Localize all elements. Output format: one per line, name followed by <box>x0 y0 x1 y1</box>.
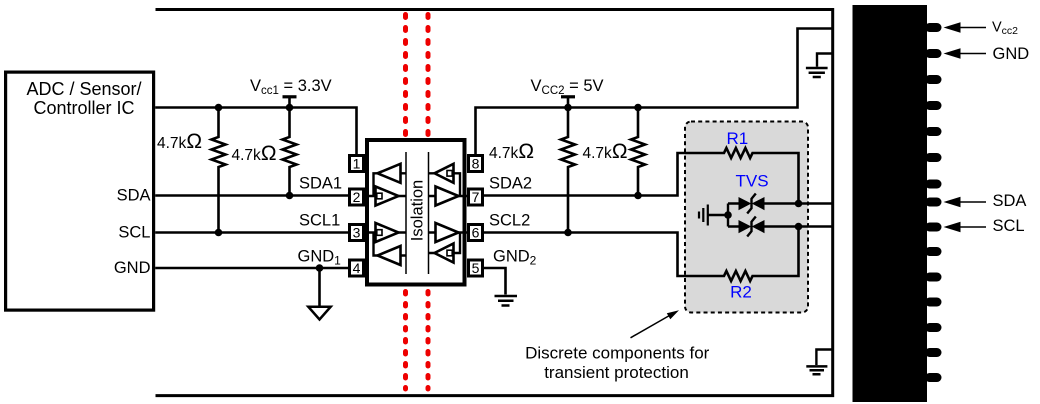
svg-text:Controller IC: Controller IC <box>33 98 134 118</box>
node dot SCL-RP1 <box>215 229 223 237</box>
marker on H <box>447 250 452 256</box>
pin box 6 <box>469 225 483 241</box>
inner barrier line left <box>405 152 407 274</box>
svg-text:SDA1: SDA1 <box>299 175 342 193</box>
Vcc2 supply symbol <box>561 95 575 98</box>
buffer E wires (ch2 left) <box>363 233 406 256</box>
node dot GND <box>316 264 324 272</box>
svg-text:GND: GND <box>114 259 151 277</box>
svg-text:4.7kΩ: 4.7kΩ <box>583 140 628 163</box>
svg-text:R2: R2 <box>730 283 752 302</box>
wire GND row <box>155 267 349 270</box>
svg-text:5: 5 <box>472 260 480 276</box>
ADC / Sensor / Controller IC box <box>6 72 154 310</box>
node dot rail-RP4 <box>634 104 642 112</box>
connector body <box>853 5 928 402</box>
wire SCL2 through R2 to connector <box>483 227 833 282</box>
isolation barrier (red dashed) bottom-right <box>426 292 431 390</box>
pin box 2 <box>350 189 364 205</box>
svg-text:4.7kΩ: 4.7kΩ <box>232 142 277 165</box>
arrow SDA <box>944 197 961 208</box>
Vcc1 supply symbol <box>283 95 297 98</box>
node dot rail-RP1 <box>215 104 223 112</box>
buffer H (points left) <box>435 244 454 263</box>
svg-text:SDA: SDA <box>117 187 151 205</box>
node dot SDA-RP2 <box>286 192 294 200</box>
svg-text:2: 2 <box>353 189 361 205</box>
svg-text:SDA2: SDA2 <box>489 175 532 193</box>
ground (rotated) for TVS <box>699 205 708 226</box>
svg-text:SCL1: SCL1 <box>299 212 340 230</box>
inner barrier line right <box>428 152 430 274</box>
buffer A wires (ch1 left) <box>363 173 406 196</box>
isolation barrier (red dashed) bottom-left <box>403 292 408 390</box>
protection box (gray dashed) <box>685 122 808 313</box>
buffer C (points left) <box>435 164 454 183</box>
resistor RP1 4.7k (left, to SCL) <box>212 108 226 233</box>
arrow SCL <box>944 222 961 233</box>
buffer A (points left) <box>378 164 401 183</box>
wire Vcc1 rail to pin 1 <box>155 108 356 156</box>
isolator IC body U1 <box>367 140 465 285</box>
svg-text:SCL2: SCL2 <box>489 212 530 230</box>
svg-text:1: 1 <box>353 156 361 172</box>
marker on E <box>377 230 382 236</box>
svg-text:Discrete components for: Discrete components for <box>525 344 710 363</box>
svg-text:SCL: SCL <box>993 217 1025 235</box>
arrow Vcc2 <box>944 22 961 33</box>
TVS bus vertical <box>727 204 729 227</box>
svg-text:transient protection: transient protection <box>544 363 689 382</box>
svg-text:SDA: SDA <box>993 192 1027 210</box>
wire SDA2 through R1 to connector <box>483 148 833 204</box>
buffer F (points left) <box>378 246 401 265</box>
buffer E (points right) <box>376 223 399 242</box>
node dot rail-RP2 <box>286 104 294 112</box>
resistor RP3 4.7k (right, to SCL2) <box>561 108 575 233</box>
pin box 8 <box>469 156 483 172</box>
pin box 5 <box>469 260 483 276</box>
buffer G wires (ch2 right) <box>429 233 469 254</box>
pin box 3 <box>350 225 364 241</box>
board frame wire (top/right/bottom) <box>156 10 833 396</box>
svg-text:TVS: TVS <box>735 172 768 191</box>
svg-text:GND2: GND2 <box>493 248 537 268</box>
pin box 4 <box>350 260 364 276</box>
node dot SDA2-RP4 <box>634 192 642 200</box>
node dot TVS-SDA <box>795 200 803 208</box>
svg-text:6: 6 <box>472 225 480 241</box>
node dot TVS-SCL <box>795 223 803 231</box>
node dot rail-RP3 <box>564 104 572 112</box>
buffer G (points right) <box>436 223 459 242</box>
svg-text:4.7kΩ: 4.7kΩ <box>157 130 202 153</box>
buffer B (points right) <box>376 187 399 206</box>
pin box 7 <box>469 189 483 205</box>
resistor RP4 4.7k (right, to SDA2) <box>631 108 645 196</box>
resistor RP2 4.7k (left, to SDA) <box>283 108 297 196</box>
svg-text:Vcc2: Vcc2 <box>992 20 1018 38</box>
ground (triangle) under GND1 <box>318 268 321 306</box>
isolation barrier (red dashed) top-left <box>403 15 408 136</box>
node dot TVS common <box>724 211 732 219</box>
buffer C wires (ch1 right) <box>429 173 469 196</box>
svg-text:GND: GND <box>993 45 1030 63</box>
svg-text:4: 4 <box>353 260 361 276</box>
arrow GND <box>944 48 961 59</box>
wire SDA row <box>155 194 349 197</box>
ground (bars) top right <box>817 54 833 67</box>
wire GND2 to ground <box>483 268 506 295</box>
svg-text:3: 3 <box>353 225 361 241</box>
connector pins <box>925 23 942 382</box>
ground (bars) bottom right <box>816 350 832 366</box>
TVS diode top (SDA) <box>728 202 799 204</box>
svg-text:4.7kΩ: 4.7kΩ <box>489 140 534 163</box>
svg-text:Isolation: Isolation <box>409 180 427 241</box>
svg-text:R1: R1 <box>727 129 749 148</box>
svg-text:ADC / Sensor/: ADC / Sensor/ <box>26 79 141 99</box>
svg-text:GND1: GND1 <box>298 248 342 268</box>
node dot SCL2-RP3 <box>564 229 572 237</box>
svg-text:7: 7 <box>472 189 480 205</box>
annotation arrow <box>631 316 670 338</box>
marker on B <box>377 193 382 199</box>
pin box 1 <box>350 156 364 172</box>
wire Vcc2 rail from pin8 to frame <box>476 29 833 156</box>
wire SCL row <box>155 231 349 234</box>
TVS diode bottom (SCL) <box>728 225 799 227</box>
buffer D (points right) <box>436 187 459 206</box>
ground (bars) GND2 <box>495 296 518 306</box>
svg-text:SCL: SCL <box>118 224 150 242</box>
svg-text:VCC2 = 5V: VCC2 = 5V <box>531 77 604 97</box>
marker on C <box>447 171 452 177</box>
svg-text:8: 8 <box>472 156 480 172</box>
svg-text:Vcc1 = 3.3V: Vcc1 = 3.3V <box>250 77 332 97</box>
isolation barrier (red dashed) top-right <box>426 15 431 136</box>
